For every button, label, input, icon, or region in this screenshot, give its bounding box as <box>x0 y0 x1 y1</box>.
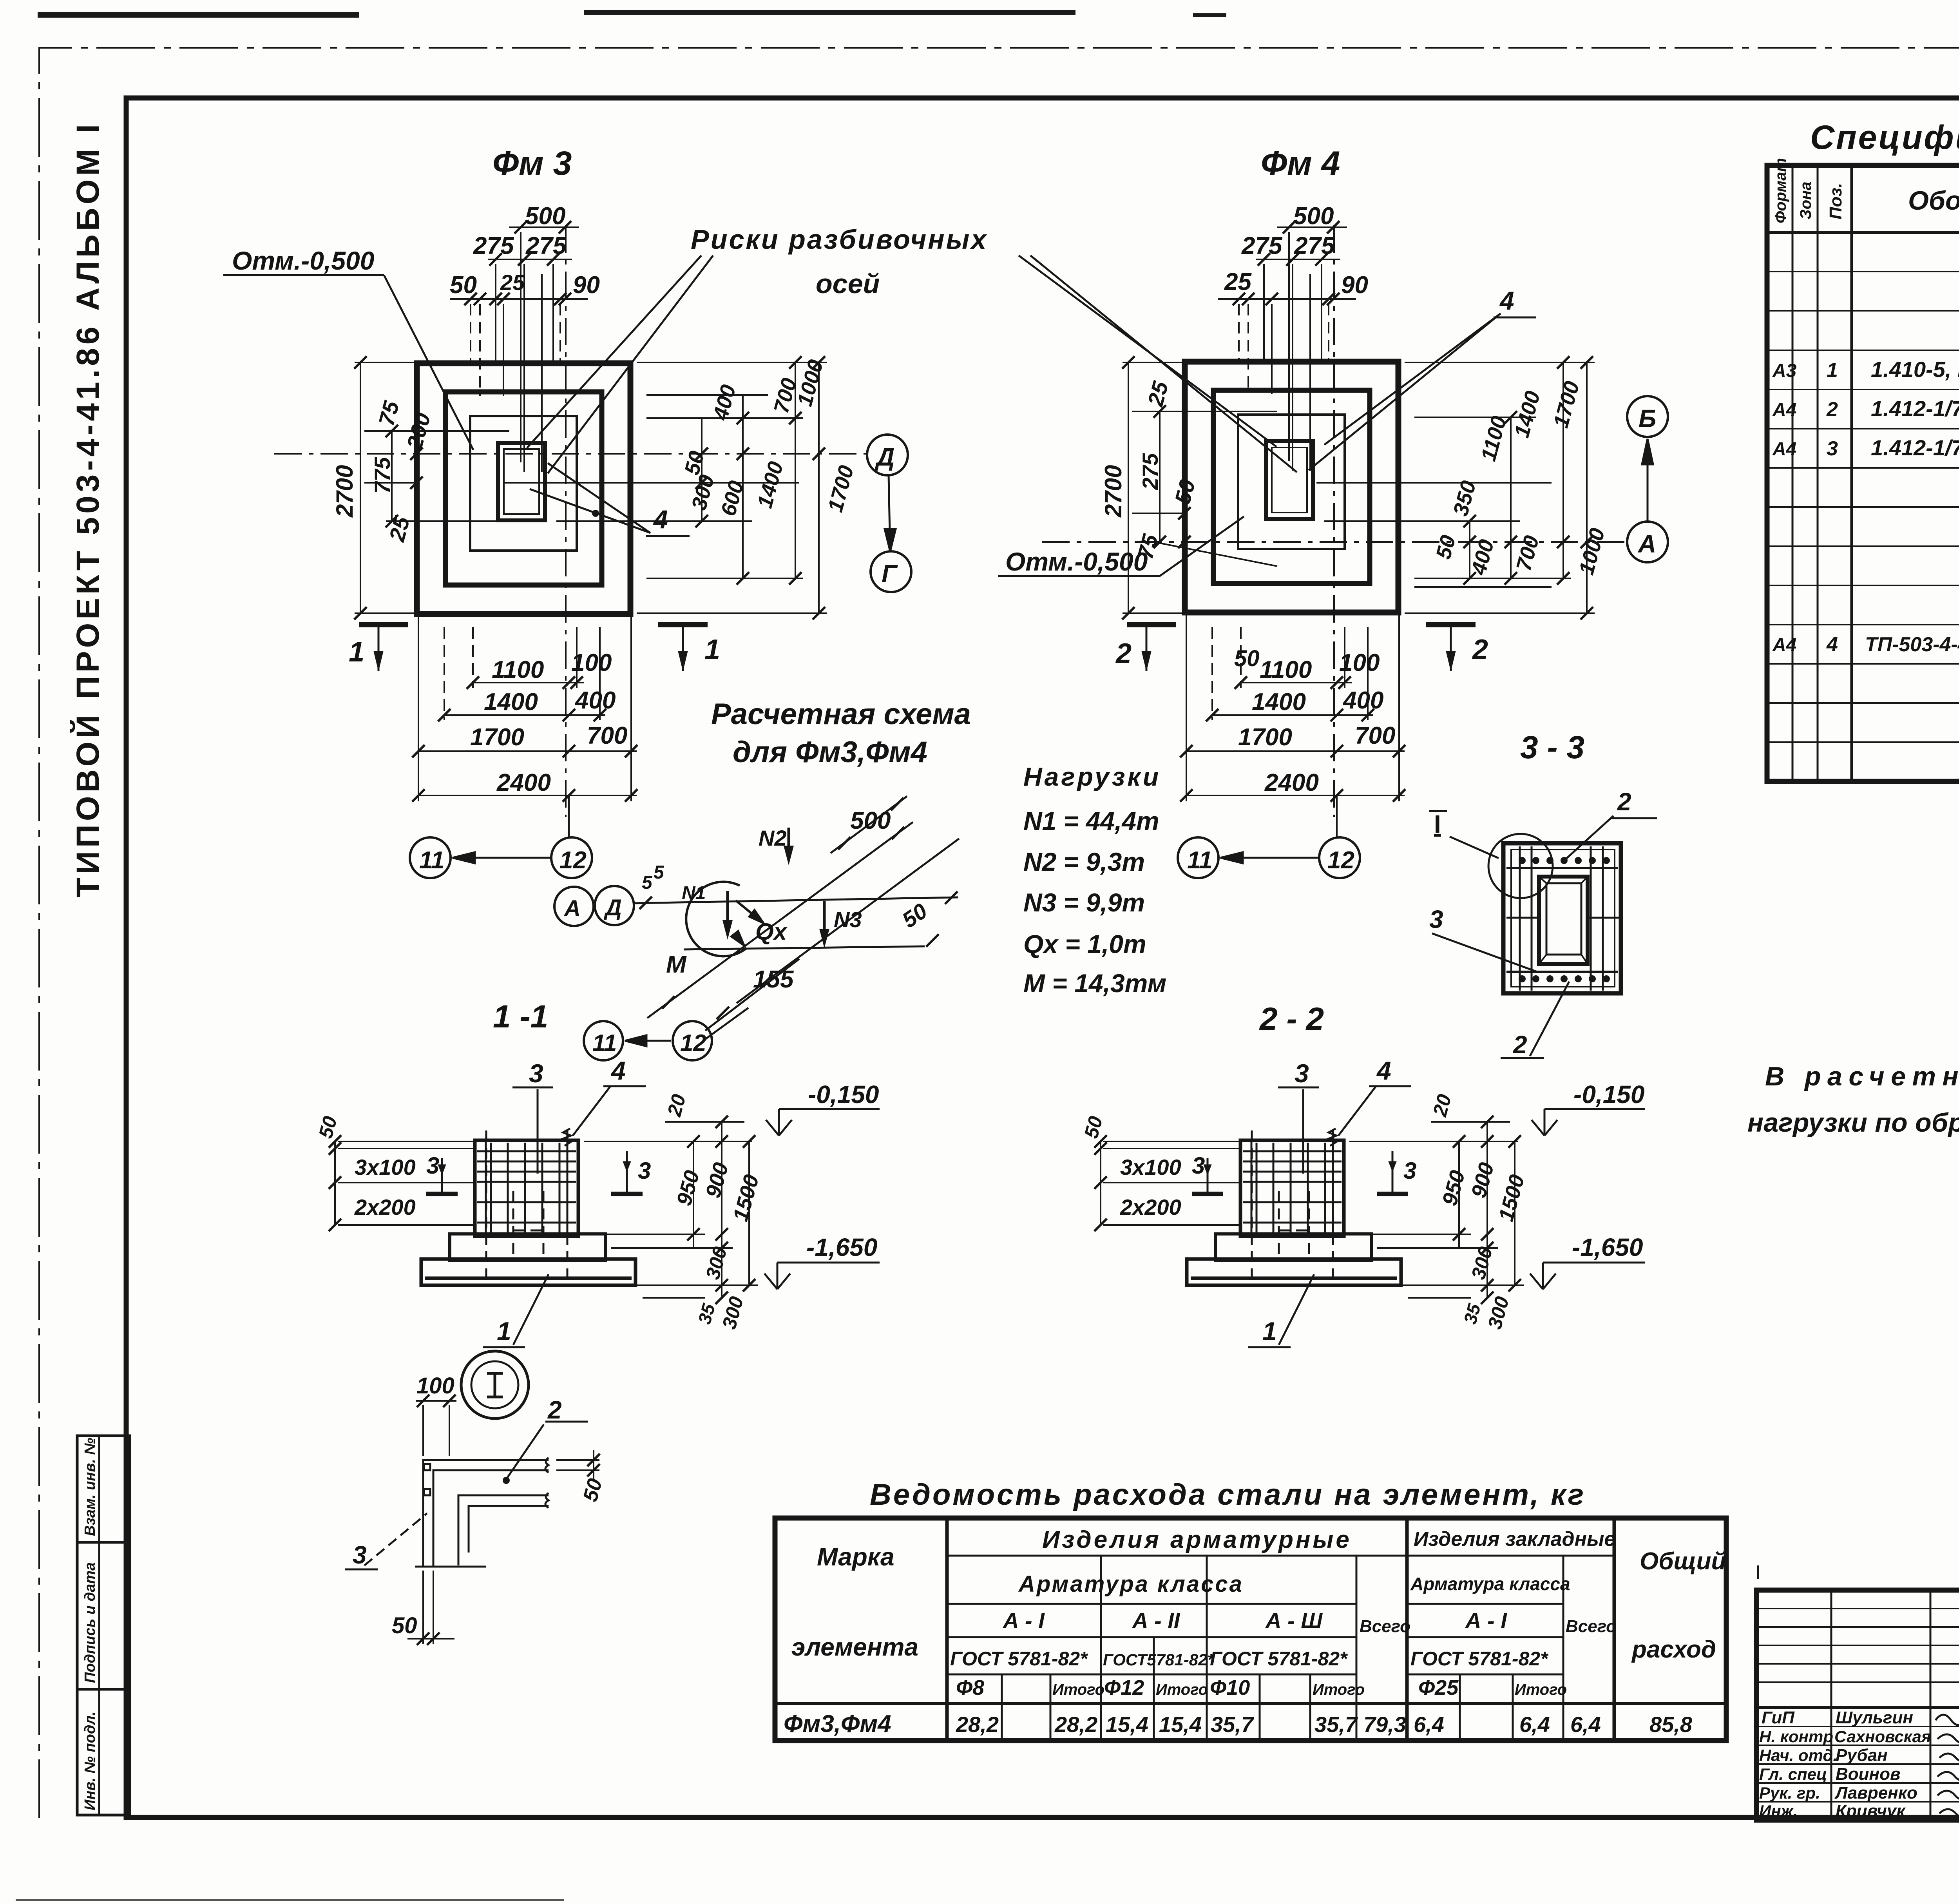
svg-text:Отм.-0,500: Отм.-0,500 <box>232 246 375 275</box>
svg-text:3 - 3: 3 - 3 <box>1520 730 1584 765</box>
svg-text:500: 500 <box>525 203 565 230</box>
svg-text:Н. контр: Н. контр <box>1759 1727 1833 1746</box>
svg-text:100: 100 <box>1339 649 1380 676</box>
svg-text:-0,150: -0,150 <box>808 1080 879 1109</box>
svg-text:2: 2 <box>1472 634 1488 665</box>
svg-text:Нагрузки: Нагрузки <box>1023 762 1161 791</box>
weld T symbols <box>426 1158 458 1194</box>
svg-text:50: 50 <box>392 1613 417 1638</box>
axis circle G <box>871 551 911 592</box>
svg-text:Формат: Формат <box>1772 158 1789 223</box>
svg-text:Ф25: Ф25 <box>1418 1676 1459 1699</box>
svg-text:775: 775 <box>370 457 395 494</box>
axis circles 11 12 under FM3 <box>410 837 451 878</box>
svg-text:Общий: Общий <box>1640 1548 1726 1575</box>
svg-text:Ф8: Ф8 <box>956 1676 984 1699</box>
svg-text:400: 400 <box>1342 687 1383 714</box>
svg-text:5: 5 <box>654 862 664 883</box>
svg-text:4: 4 <box>1499 286 1514 315</box>
svg-text:расход: расход <box>1631 1636 1716 1663</box>
svg-text:90: 90 <box>573 272 600 299</box>
svg-text:Воинов: Воинов <box>1836 1765 1901 1784</box>
svg-text:275: 275 <box>1294 232 1335 259</box>
svg-text:Взам. инв. №: Взам. инв. № <box>82 1438 98 1536</box>
svg-text:3: 3 <box>1429 905 1443 933</box>
svg-text:275: 275 <box>525 232 567 259</box>
svg-text:2: 2 <box>1513 1031 1527 1059</box>
left dim block of section <box>335 1141 475 1225</box>
svg-text:Qх: Qх <box>755 918 788 945</box>
FM3 left dim block <box>355 362 509 613</box>
svg-text:Итого: Итого <box>1313 1681 1365 1698</box>
svg-text:2400: 2400 <box>1264 769 1319 796</box>
svg-text:100: 100 <box>416 1373 454 1399</box>
svg-text:1700: 1700 <box>1238 724 1292 751</box>
rebar verticals <box>1519 846 1521 991</box>
svg-text:Подпись и дата: Подпись и дата <box>82 1562 98 1683</box>
svg-text:Всего: Всего <box>1566 1617 1617 1636</box>
svg-text:Сахновская: Сахновская <box>1834 1727 1931 1746</box>
svg-text:700: 700 <box>587 722 627 749</box>
svg-text:1400: 1400 <box>1252 688 1306 716</box>
svg-text:4: 4 <box>610 1056 626 1085</box>
FM3 bottom dims <box>418 615 637 801</box>
svg-text:1100: 1100 <box>1260 656 1312 683</box>
svg-text:N1: N1 <box>682 883 706 904</box>
svg-text:А4: А4 <box>1772 635 1796 656</box>
M moment arc <box>686 882 746 956</box>
svg-text:Г: Г <box>882 560 898 588</box>
svg-text:Зона: Зона <box>1797 181 1814 219</box>
3-3 outer walls <box>1503 843 1621 993</box>
svg-text:А3: А3 <box>1772 361 1797 381</box>
svg-text:12: 12 <box>559 847 587 874</box>
svg-text:элемента: элемента <box>791 1633 918 1661</box>
svg-text:28,2: 28,2 <box>1054 1712 1097 1737</box>
section body group (reused for 2-2) <box>315 1056 880 1347</box>
svg-text:Арматура класса: Арматура класса <box>1018 1571 1244 1597</box>
FM4 right dim block <box>1324 362 1595 613</box>
svg-text:2700: 2700 <box>331 465 358 518</box>
svg-text:N3: N3 <box>834 907 862 932</box>
svg-text:3х100: 3х100 <box>355 1155 416 1179</box>
svg-text:25: 25 <box>1224 268 1252 295</box>
section mark 1 right <box>658 625 708 671</box>
FM3 top witness lines <box>520 232 521 462</box>
svg-text:11: 11 <box>419 847 444 874</box>
mesh verticals <box>491 1143 559 1234</box>
svg-text:нагрузки по обрезу фундамен: нагрузки по обрезу фундамента на отм. -0… <box>1747 1108 1959 1138</box>
svg-text:1: 1 <box>349 636 364 668</box>
svg-text:1: 1 <box>1827 359 1838 382</box>
svg-text:В расчетной схеме даны н: В расчетной схеме даны нормативные <box>1765 1062 1959 1091</box>
svg-text:Арматура класса: Арматура класса <box>1410 1574 1570 1594</box>
svg-text:1 -1: 1 -1 <box>493 999 548 1034</box>
svg-text:6,4: 6,4 <box>1414 1712 1444 1737</box>
svg-text:25: 25 <box>500 270 525 295</box>
svg-text:12: 12 <box>680 1030 706 1056</box>
svg-text:1700: 1700 <box>470 724 524 751</box>
node circle mark on 3-3 <box>1488 834 1553 898</box>
svg-text:11: 11 <box>1187 847 1212 874</box>
svg-text:М = 14,3тм: М = 14,3тм <box>1023 969 1166 998</box>
plan FM3 nested rects <box>417 363 630 614</box>
svg-text:для Фм3,Фм4: для Фм3,Фм4 <box>733 736 927 769</box>
section mark 2 left <box>1127 625 1176 671</box>
svg-text:2 - 2: 2 - 2 <box>1259 1001 1324 1037</box>
axis circles 11 12 near section 1-1 <box>584 1021 623 1060</box>
svg-text:Расчетная схема: Расчетная схема <box>711 697 971 731</box>
svg-text:1400: 1400 <box>484 688 538 716</box>
svg-text:Фм3,Фм4: Фм3,Фм4 <box>784 1710 891 1737</box>
svg-text:А - II: А - II <box>1132 1608 1180 1633</box>
FM4 bottom dims <box>1186 615 1405 801</box>
svg-text:осей: осей <box>816 268 880 299</box>
svg-text:2х200: 2х200 <box>354 1195 416 1219</box>
FM4 left dim block <box>1123 362 1277 613</box>
svg-text:Инж.: Инж. <box>1759 1802 1798 1820</box>
svg-text:400: 400 <box>574 687 616 714</box>
svg-text:Риски разбивочных: Риски разбивочных <box>691 224 988 255</box>
svg-text:Фм 4: Фм 4 <box>1261 145 1340 182</box>
FM4 vertical axis dash-dot <box>1333 225 1335 817</box>
svg-text:Спецификация фундаментоб Фм3,: Спецификация фундаментоб Фм3, Фм4 <box>1810 119 1959 156</box>
step slab <box>450 1234 606 1260</box>
svg-text:500: 500 <box>850 807 891 834</box>
svg-text:Изделия арматурные: Изделия арматурные <box>1042 1526 1352 1553</box>
svg-text:5: 5 <box>642 872 653 893</box>
svg-text:2400: 2400 <box>496 769 551 796</box>
svg-text:85,8: 85,8 <box>1649 1712 1693 1737</box>
FM3 vertical axis dash-dot <box>565 225 567 817</box>
svg-text:Д: Д <box>874 443 894 471</box>
svg-text:Ф10: Ф10 <box>1210 1676 1250 1699</box>
svg-text:155: 155 <box>753 966 794 993</box>
arrow D to G <box>885 475 896 551</box>
load arrows N1 N2 N3 <box>728 828 824 941</box>
svg-text:Итого: Итого <box>1156 1681 1208 1698</box>
svg-text:I: I <box>1434 810 1441 838</box>
fold mark dashed <box>1757 1565 1759 1742</box>
arrow A to B <box>1642 439 1653 522</box>
svg-text:50: 50 <box>1234 646 1260 671</box>
svg-text:ГиП: ГиП <box>1762 1708 1795 1727</box>
svg-text:Ф12: Ф12 <box>1104 1676 1144 1699</box>
axis circle D <box>867 435 908 475</box>
svg-text:2: 2 <box>1115 638 1132 669</box>
svg-text:275: 275 <box>1241 232 1283 259</box>
axis circles 11 12 under FM4 <box>1178 837 1218 878</box>
svg-text:А - I: А - I <box>1002 1608 1045 1633</box>
svg-text:11: 11 <box>592 1030 617 1056</box>
FM4 horizontal axis to circle A <box>1042 541 1626 543</box>
svg-text:700: 700 <box>1355 722 1395 749</box>
svg-text:А4: А4 <box>1772 400 1796 420</box>
dim 50 right <box>556 1450 599 1481</box>
Qx arrow <box>736 900 762 922</box>
svg-text:Б: Б <box>1639 404 1656 433</box>
svg-text:ГОСТ 5781-82*: ГОСТ 5781-82* <box>950 1648 1088 1670</box>
svg-text:Ведомость расхода стали: Ведомость расхода стали на элемент, кг <box>870 1478 1586 1511</box>
leader lines riski to FM3 <box>527 255 713 473</box>
svg-text:15,4: 15,4 <box>1106 1712 1148 1737</box>
svg-text:1100: 1100 <box>492 656 544 683</box>
svg-text:3: 3 <box>1827 437 1838 460</box>
svg-text:N2: N2 <box>759 826 787 850</box>
FM3 top dim ticks <box>514 221 527 234</box>
svg-text:28,2: 28,2 <box>956 1712 999 1737</box>
svg-text:Обозначение: Обозначение <box>1908 186 1959 216</box>
svg-text:1: 1 <box>704 634 720 665</box>
svg-text:3: 3 <box>426 1152 439 1179</box>
svg-text:Поз.: Поз. <box>1826 183 1845 219</box>
svg-text:-1,650: -1,650 <box>806 1233 877 1261</box>
svg-text:Фм 3: Фм 3 <box>492 145 572 182</box>
pedestal walls <box>475 1140 578 1236</box>
svg-text:275: 275 <box>1138 453 1162 490</box>
mesh horizontals <box>477 1151 576 1223</box>
plan FM4 nested rects <box>1185 362 1398 612</box>
svg-text:4: 4 <box>653 505 668 534</box>
FM3 right dim block <box>556 362 827 613</box>
svg-text:Шульгин: Шульгин <box>1836 1708 1913 1727</box>
svg-text:Изделия закладные: Изделия закладные <box>1414 1528 1615 1551</box>
svg-text:50: 50 <box>450 272 477 299</box>
svg-text:2: 2 <box>1826 398 1838 421</box>
svg-text:Д: Д <box>603 895 622 920</box>
right dim block of section <box>584 1122 758 1298</box>
svg-text:2700: 2700 <box>1100 465 1126 518</box>
svg-text:79,3: 79,3 <box>1363 1712 1406 1737</box>
svg-text:6,4: 6,4 <box>1519 1712 1550 1737</box>
FM3 top dim lines <box>509 226 579 228</box>
svg-text:ТИПОВОЙ ПРОЕКТ 503-4-41.86 АЛЬ: ТИПОВОЙ ПРОЕКТ 503-4-41.86 АЛЬБОМ I <box>70 123 106 897</box>
svg-text:2: 2 <box>547 1396 562 1424</box>
svg-text:ГОСТ5781-82*: ГОСТ5781-82* <box>1103 1650 1214 1669</box>
scheme axis circles A D <box>554 887 594 926</box>
svg-text:Qх = 1,0т: Qх = 1,0т <box>1023 929 1146 958</box>
svg-text:ГОСТ 5781-82*: ГОСТ 5781-82* <box>1410 1648 1549 1670</box>
svg-text:Лавренко: Лавренко <box>1834 1783 1917 1803</box>
svg-text:Итого: Итого <box>1515 1681 1567 1698</box>
rebar horizontals <box>1506 867 1618 869</box>
bottom slab <box>421 1259 635 1285</box>
svg-text:275: 275 <box>473 232 514 259</box>
scheme lines <box>634 796 959 1039</box>
svg-text:1.412-1/77, Вып.3: 1.412-1/77, Вып.3 <box>1871 435 1959 460</box>
svg-text:А - I: А - I <box>1465 1608 1507 1633</box>
svg-text:2: 2 <box>1617 788 1631 816</box>
svg-text:ТП-503-4-41.86: ТП-503-4-41.86 <box>1865 633 1959 656</box>
FM4 top witness lines <box>1288 232 1290 461</box>
svg-text:Гл. спец: Гл. спец <box>1759 1765 1827 1783</box>
FM3 second horizontal thin line <box>504 482 799 484</box>
svg-text:Итого: Итого <box>1052 1681 1104 1698</box>
svg-text:500: 500 <box>1293 203 1334 230</box>
svg-text:А: А <box>1637 530 1656 558</box>
axis circle A <box>1627 522 1668 562</box>
svg-text:1.412-1/77, Вып.3: 1.412-1/77, Вып.3 <box>1871 396 1959 421</box>
svg-text:Марка: Марка <box>817 1543 894 1571</box>
svg-text:А - Ш: А - Ш <box>1265 1608 1323 1633</box>
dashed anchor bars <box>485 1130 487 1281</box>
svg-text:Отм.-0,500: Отм.-0,500 <box>1005 547 1148 576</box>
signatures squiggles <box>1935 1715 1959 1821</box>
svg-text:3: 3 <box>529 1059 543 1088</box>
svg-text:Рук. гр.: Рук. гр. <box>1759 1784 1820 1802</box>
rebar dots top <box>1519 857 1610 982</box>
svg-text:6,4: 6,4 <box>1570 1712 1601 1737</box>
FM3 horizontal axis dash-dot to circle D <box>274 453 867 455</box>
leader lines riski to FM4 <box>1019 255 1297 472</box>
svg-text:90: 90 <box>1341 272 1368 299</box>
svg-text:Нач. отд.: Нач. отд. <box>1759 1746 1838 1765</box>
FM4 second horizontal thin line <box>1316 482 1552 484</box>
svg-text:35,7: 35,7 <box>1314 1712 1358 1737</box>
corner angle detail <box>415 1458 549 1567</box>
section mark 1 left <box>359 625 408 671</box>
svg-text:N1 = 44,4т: N1 = 44,4т <box>1023 806 1159 835</box>
section mark 2 right <box>1426 625 1476 671</box>
svg-text:1.410-5, Вып.1: 1.410-5, Вып.1 <box>1871 357 1959 382</box>
svg-text:Всего: Всего <box>1360 1617 1410 1636</box>
svg-text:М: М <box>666 951 687 978</box>
svg-text:35,7: 35,7 <box>1211 1712 1255 1737</box>
left margin small strip table <box>77 1436 130 1815</box>
svg-text:ГОСТ 5781-82*: ГОСТ 5781-82* <box>1210 1648 1348 1670</box>
svg-text:100: 100 <box>571 649 612 676</box>
svg-text:А4: А4 <box>1772 439 1796 460</box>
svg-text:4: 4 <box>1826 633 1838 656</box>
svg-text:N3 = 9,9т: N3 = 9,9т <box>1023 888 1145 917</box>
svg-text:N2 = 9,3т: N2 = 9,3т <box>1023 847 1145 876</box>
svg-text:1: 1 <box>497 1317 511 1346</box>
svg-text:Инв. № подл.: Инв. № подл. <box>82 1711 98 1810</box>
svg-text:А: А <box>563 896 581 921</box>
svg-text:3: 3 <box>638 1158 651 1184</box>
svg-text:Кривчук: Кривчук <box>1836 1801 1906 1821</box>
svg-text:12: 12 <box>1327 847 1354 874</box>
FM4 top dim lines <box>1277 226 1347 228</box>
svg-text:Рубан: Рубан <box>1836 1746 1888 1765</box>
svg-text:15,4: 15,4 <box>1159 1712 1202 1737</box>
axis circle B <box>1627 396 1668 437</box>
